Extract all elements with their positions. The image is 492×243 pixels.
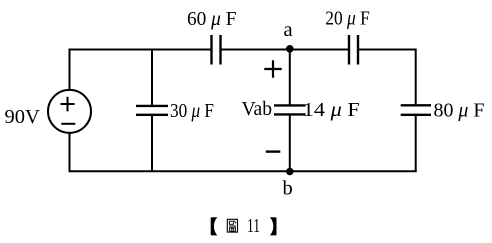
capacitor C 20uF plates [349,35,358,65]
capacitor C 80uF branch upper wire (right rail) [415,49,417,105]
svg-text:Vab: Vab [242,98,273,120]
svg-text:30 μ F: 30 μ F [170,100,214,122]
polarity minus near node b [266,150,281,152]
svg-text:b: b [283,178,293,200]
wire: left rail lower segment [69,133,71,172]
capacitor C 80uF plates [401,105,431,115]
svg-text:a: a [284,19,293,41]
caption right lenticular bracket [270,217,277,235]
svg-text:90V: 90V [5,106,41,128]
wire: top rail middle segment [221,49,350,51]
wire: left rail upper segment [69,49,71,91]
node a dot [286,45,294,53]
caption left lenticular bracket [211,217,218,235]
capacitor C 80uF branch lower wire [415,116,417,172]
svg-text:20 μ F: 20 μ F [325,7,370,29]
node b dot [286,168,294,176]
capacitor C 60uF plates [212,35,221,65]
voltage source minus mark [61,123,75,125]
capacitor C 14uF plates [274,105,306,114]
svg-text:11: 11 [247,216,260,237]
wire: top rail right segment [358,49,416,51]
voltage source V1 90V circle [48,90,91,133]
svg-text:80 μ F: 80 μ F [434,100,485,122]
capacitor C 14uF branch upper wire [289,49,291,105]
capacitor C 14uF branch lower wire [289,115,291,171]
wire: top rail left segment [70,49,212,51]
voltage source plus mark [61,97,75,112]
capacitor C 30uF branch lower wire [151,116,153,172]
capacitor C 30uF plates [136,106,168,115]
caption character tu (figure) [227,219,237,232]
svg-text:14 μ F: 14 μ F [303,99,360,121]
polarity plus near node a [264,60,281,77]
wire: bottom rail [69,170,417,172]
svg-text:60 μ F: 60 μ F [187,8,237,30]
capacitor C 30uF branch upper wire [151,49,153,106]
